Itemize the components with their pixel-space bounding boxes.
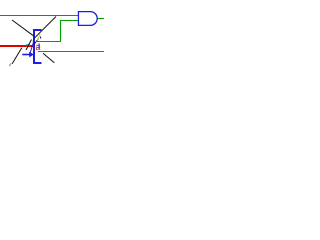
blue arrow filled head [29,52,34,58]
yellow speck mid [36,43,39,46]
red bus wire [0,45,34,47]
and-gate U1 [78,12,97,26]
wire net B lower horizontal [37,41,61,43]
drag line D3 upper-right 45deg [34,17,56,39]
wire net B vertical [60,20,62,42]
blue tick right of bar [40,36,42,38]
bracket top arm [33,29,42,31]
cyan highlight segment on bus [26,44,30,46]
wire net A horizontal [0,15,78,17]
wire net B horizontal upper [60,20,78,22]
background [0,0,104,85]
drag line D4 bottom-right [43,53,54,63]
drag line Q short [34,39,39,45]
end dash tail [9,63,11,66]
text caret [38,44,40,49]
gate output wire [97,18,104,20]
drag line Da bottom-left steep [12,48,22,64]
blue arrow shaft [22,54,29,56]
connector bracket J1 bar [33,29,35,64]
cyan speck left of bracket [32,40,35,42]
drag line Db blue steep [30,41,35,56]
yellow ghost segment along D3 [37,34,40,41]
yellow speck lower [39,46,42,49]
drag line D2 upper-left [12,20,34,36]
drag line B1 black [26,40,32,51]
bracket bottom arm [33,62,42,64]
wire net C bottom horizontal [38,51,104,53]
